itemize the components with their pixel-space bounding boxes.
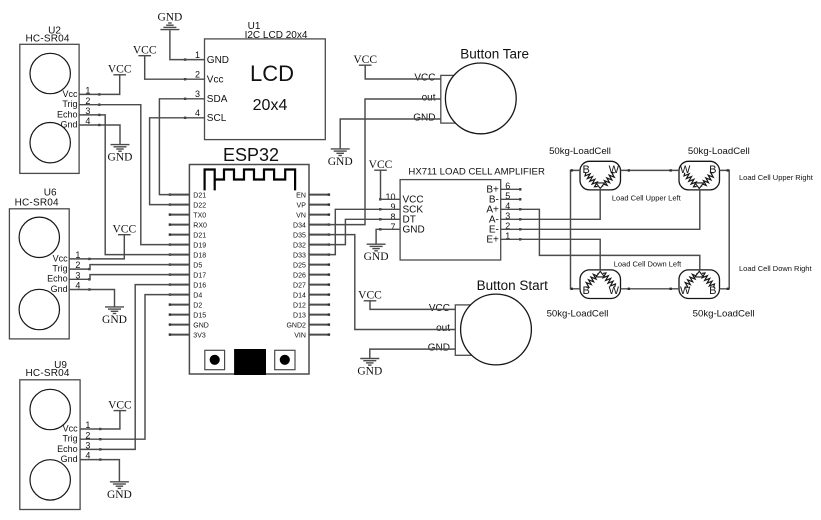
load cell pin connection ticks xyxy=(571,169,730,290)
pushbutton Button Start xyxy=(428,278,548,365)
svg-text:Load Cell Upper Right: Load Cell Upper Right xyxy=(739,173,814,182)
wire ButtonTare.VCC to VCC xyxy=(365,65,441,79)
VCC symbol for Button Start xyxy=(364,300,377,302)
load cell lower left (50kg) xyxy=(580,270,621,299)
svg-text:Vcc: Vcc xyxy=(63,423,79,433)
svg-text:VCC: VCC xyxy=(108,64,132,76)
svg-text:VCC: VCC xyxy=(429,303,450,314)
svg-text:D12: D12 xyxy=(293,303,306,310)
svg-text:Echo: Echo xyxy=(47,274,68,284)
svg-text:D21: D21 xyxy=(193,233,206,240)
svg-text:Load Cell Down Right: Load Cell Down Right xyxy=(739,264,812,273)
I2C LCD 20x4 module U1 xyxy=(205,21,326,140)
svg-text:D35: D35 xyxy=(293,233,306,240)
svg-text:D21: D21 xyxy=(193,193,206,200)
svg-text:10: 10 xyxy=(385,192,395,202)
svg-text:Button Start: Button Start xyxy=(477,278,549,293)
svg-text:Vcc: Vcc xyxy=(53,253,69,263)
svg-text:D4: D4 xyxy=(193,293,202,300)
VCC symbol left of LCD xyxy=(138,55,151,57)
svg-text:D18: D18 xyxy=(193,253,206,260)
GND symbol for U9 xyxy=(110,481,129,483)
wire ButtonTare.GND to GND xyxy=(340,119,441,149)
ESP32 boot button left xyxy=(205,350,225,369)
stub HX711.B+ pin6 xyxy=(501,188,521,190)
U2 pin connection ticks xyxy=(98,93,100,126)
svg-text:LCD: LCD xyxy=(250,61,294,86)
wire U6.Gnd to GND xyxy=(69,290,114,307)
svg-text:9: 9 xyxy=(390,202,395,212)
svg-text:D26: D26 xyxy=(293,273,306,280)
HX711 load cell amplifier U3 body xyxy=(400,166,545,260)
svg-text:W: W xyxy=(609,164,620,176)
svg-text:out: out xyxy=(422,93,436,104)
wire right bus B-B (UR to LR) xyxy=(720,170,730,288)
svg-text:1: 1 xyxy=(195,50,200,60)
svg-text:D22: D22 xyxy=(193,203,206,210)
svg-text:out: out xyxy=(436,323,450,334)
wire U6.Vcc to VCC xyxy=(69,235,124,259)
svg-text:Trig: Trig xyxy=(52,264,67,274)
ESP32 usb connector xyxy=(234,349,266,375)
svg-text:VCC: VCC xyxy=(112,223,136,235)
svg-text:D25: D25 xyxy=(293,263,306,270)
svg-text:VCC: VCC xyxy=(369,159,393,171)
svg-text:VCC: VCC xyxy=(108,399,132,411)
wire HX711.A- pin3 to upper-left load cell xyxy=(501,190,601,219)
svg-text:50kg-LoadCell: 50kg-LoadCell xyxy=(549,146,611,157)
wire U2.Vcc to VCC xyxy=(79,75,120,95)
wire U9.Gnd to GND xyxy=(80,460,119,482)
svg-text:50kg-LoadCell: 50kg-LoadCell xyxy=(547,309,609,320)
stub HX711.B- pin5 xyxy=(501,198,521,200)
svg-text:VP: VP xyxy=(297,203,307,210)
svg-text:GND: GND xyxy=(364,251,389,263)
svg-text:GND: GND xyxy=(108,152,133,164)
svg-text:HC-SR04: HC-SR04 xyxy=(15,198,59,209)
svg-text:Load Cell Upper Left: Load Cell Upper Left xyxy=(612,193,682,202)
wire HX711.E+ pin1 to lower-left load cell xyxy=(501,239,601,270)
wire LCD.SDA to ESP32.D21 xyxy=(159,99,204,195)
ESP32 boot button right xyxy=(275,350,295,369)
svg-text:W: W xyxy=(609,285,620,297)
svg-text:GND: GND xyxy=(207,55,229,66)
LCD pin connection ticks xyxy=(184,58,186,119)
svg-text:D17: D17 xyxy=(193,273,206,280)
svg-text:B: B xyxy=(709,285,716,297)
ultrasonic sensor U2 HC-SR04 xyxy=(20,25,79,173)
wire U2.Gnd to GND xyxy=(79,125,120,145)
svg-text:Trig: Trig xyxy=(63,434,78,444)
VCC symbol for HX711 xyxy=(374,169,387,171)
svg-text:GND: GND xyxy=(102,314,127,326)
svg-text:VCC: VCC xyxy=(358,290,382,302)
svg-text:Vcc: Vcc xyxy=(207,75,224,86)
wire ButtonTare.out to ESP32.D34 xyxy=(309,99,441,225)
svg-text:20x4: 20x4 xyxy=(253,97,288,114)
svg-text:ESP32: ESP32 xyxy=(223,145,279,165)
wire LCD.SCL to ESP32.D22 xyxy=(150,118,205,205)
svg-text:GND: GND xyxy=(157,12,182,24)
wire HX711.E- pin2 to upper-right load cell xyxy=(501,190,700,229)
ultrasonic sensor U9 HC-SR04 xyxy=(20,360,80,510)
svg-text:GND: GND xyxy=(328,156,353,168)
svg-text:Gnd: Gnd xyxy=(61,454,78,464)
microcontroller ESP32 module body xyxy=(189,145,309,374)
U9 pin connection ticks xyxy=(99,428,101,461)
wire LCD.GND to GND xyxy=(170,30,205,59)
svg-text:D16: D16 xyxy=(193,283,206,290)
wire ButtonStart.VCC to VCC xyxy=(370,301,455,310)
svg-text:50kg-LoadCell: 50kg-LoadCell xyxy=(693,309,755,320)
svg-text:VIN: VIN xyxy=(294,333,306,340)
svg-text:D5: D5 xyxy=(193,263,202,270)
ultrasonic sensor U6 HC-SR04 xyxy=(9,188,69,339)
wire HX711.DT to ESP32.D32 xyxy=(309,219,400,244)
ESP32 pin stubs xyxy=(169,193,330,335)
wire U9.Echo to ESP32.D16 xyxy=(80,285,189,450)
svg-text:2: 2 xyxy=(195,70,200,80)
wire HX711.A+ pin4 to lower-right load cell xyxy=(501,209,700,270)
svg-text:GND2: GND2 xyxy=(286,323,306,330)
svg-text:Load Cell Down Left: Load Cell Down Left xyxy=(614,259,682,268)
svg-text:B: B xyxy=(709,164,716,176)
U6 pin connection ticks xyxy=(88,258,90,291)
wire HX711.GND pin7 to GND xyxy=(376,229,400,244)
svg-text:D32: D32 xyxy=(293,243,306,250)
wire ButtonStart.out to ESP32.D35 xyxy=(309,235,455,330)
VCC symbol for Button Tare xyxy=(359,64,372,66)
GND symbol for Button Start xyxy=(360,358,379,360)
svg-text:EN: EN xyxy=(296,193,306,200)
svg-text:D2: D2 xyxy=(193,303,202,310)
svg-text:Gnd: Gnd xyxy=(51,284,68,294)
load cell lower right (50kg) xyxy=(679,270,720,299)
svg-text:TX0: TX0 xyxy=(193,213,206,220)
load cell upper left (50kg) xyxy=(580,161,621,190)
wire U2.Trig to ESP32.D19 xyxy=(79,105,189,245)
svg-text:E+: E+ xyxy=(486,234,499,245)
svg-text:Button Tare: Button Tare xyxy=(460,47,529,62)
svg-text:SCL: SCL xyxy=(207,113,227,124)
svg-text:Echo: Echo xyxy=(57,444,78,454)
svg-text:GND: GND xyxy=(357,366,382,378)
VCC symbol for U2 xyxy=(113,74,126,76)
GND symbol for U2 xyxy=(111,144,130,146)
GND symbol for HX711 xyxy=(367,243,386,245)
svg-text:3V3: 3V3 xyxy=(193,333,206,340)
svg-text:50kg-LoadCell: 50kg-LoadCell xyxy=(688,146,750,157)
svg-text:GND: GND xyxy=(403,225,425,236)
ESP32 pin labels xyxy=(193,193,306,340)
svg-text:D34: D34 xyxy=(293,223,306,230)
wire LCD.Vcc to VCC xyxy=(145,56,205,79)
wire U9.Trig to ESP32.D4 xyxy=(80,295,189,440)
svg-text:D15: D15 xyxy=(193,313,206,320)
GND symbol for Button Tare xyxy=(331,148,350,150)
svg-text:HC-SR04: HC-SR04 xyxy=(25,368,69,379)
svg-text:GND: GND xyxy=(107,489,132,501)
wire U9.Vcc to VCC xyxy=(80,411,120,429)
wire HX711.SCK to ESP32.D33 xyxy=(309,209,400,254)
svg-text:D33: D33 xyxy=(293,253,306,260)
svg-text:Gnd: Gnd xyxy=(60,119,77,129)
GND symbol for U6 xyxy=(105,306,124,308)
svg-text:GND: GND xyxy=(413,113,435,124)
svg-text:8: 8 xyxy=(390,212,395,222)
svg-text:D14: D14 xyxy=(293,293,306,300)
wire ButtonStart.GND to GND xyxy=(370,349,456,358)
svg-text:Vcc: Vcc xyxy=(62,89,78,99)
svg-text:RX0: RX0 xyxy=(193,223,207,230)
wire top link W-W (UL to UR) xyxy=(621,169,680,171)
svg-text:HX711 LOAD CELL AMPLIFIER: HX711 LOAD CELL AMPLIFIER xyxy=(408,166,545,177)
wire U6.Trig to ESP32.D5 xyxy=(69,265,189,270)
svg-text:3: 3 xyxy=(195,89,200,99)
ESP32 antenna meander xyxy=(205,170,296,191)
svg-text:HC-SR04: HC-SR04 xyxy=(25,33,69,44)
svg-text:4: 4 xyxy=(195,108,200,118)
VCC symbol for U6 xyxy=(118,234,131,236)
svg-text:GND: GND xyxy=(428,343,450,354)
svg-text:VCC: VCC xyxy=(133,44,157,56)
svg-text:VN: VN xyxy=(296,213,306,220)
wire U2.Echo to ESP32.D18 xyxy=(79,115,189,255)
pushbutton Button Tare xyxy=(413,47,529,134)
svg-text:Trig: Trig xyxy=(62,99,77,109)
svg-text:Echo: Echo xyxy=(57,109,78,119)
svg-text:GND: GND xyxy=(193,323,209,330)
GND symbol above LCD xyxy=(160,29,179,31)
svg-text:D19: D19 xyxy=(193,243,206,250)
wire U6.Echo to ESP32.D17 xyxy=(69,275,189,280)
svg-text:D27: D27 xyxy=(293,283,306,290)
svg-text:SDA: SDA xyxy=(207,94,228,105)
svg-text:VCC: VCC xyxy=(414,73,435,84)
wire left bus B-B (UL to LL) xyxy=(571,170,581,288)
VCC symbol for U9 xyxy=(114,410,127,412)
svg-text:VCC: VCC xyxy=(353,54,377,66)
wire HX711.VCC pin10 to VCC xyxy=(381,170,401,199)
svg-text:D13: D13 xyxy=(293,313,306,320)
load cell upper right (50kg) xyxy=(679,161,720,190)
HX711 pin connection ticks xyxy=(379,188,521,240)
wire bottom link W-W (LL to LR) xyxy=(621,288,680,290)
svg-text:7: 7 xyxy=(390,222,395,232)
svg-text:I2C LCD 20x4: I2C LCD 20x4 xyxy=(245,30,308,41)
